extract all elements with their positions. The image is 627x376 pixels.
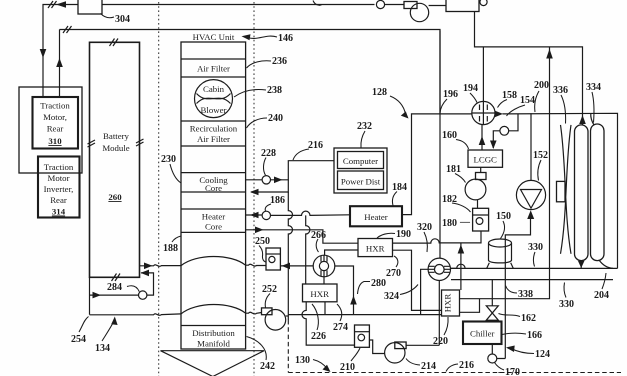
svg-text:Computer: Computer: [343, 156, 378, 166]
wire pump 214 tab to x=439.3 riser: [406, 344, 439, 346]
leader 186: [265, 204, 271, 211]
wire dome1 continuation jog to valve box 250: [246, 264, 266, 266]
leader 210: [351, 348, 360, 361]
svg-text:242: 242: [260, 361, 275, 372]
leader 242: [247, 337, 267, 361]
leader 334: [592, 92, 594, 123]
computer power dist outer box 232: [334, 148, 387, 193]
svg-text:184: 184: [392, 182, 407, 193]
svg-text:304: 304: [115, 14, 130, 25]
leader 266: [316, 239, 318, 252]
leader 240: [247, 118, 268, 128]
traction motor inverter box 314: [38, 157, 80, 218]
svg-text:240: 240: [268, 113, 283, 124]
svg-text:Blower: Blower: [201, 105, 227, 115]
wire top box down to condenser top wire: [475, 12, 583, 125]
small circle tab right of top box: [480, 0, 487, 6]
svg-text:170: 170: [505, 367, 520, 376]
svg-text:180: 180: [442, 218, 457, 229]
leader 190: [377, 233, 395, 238]
wire capsule B bottom curve to header: [599, 260, 613, 268]
air dome duct 1 inside HVAC: [181, 256, 246, 265]
leader 188: [172, 236, 181, 242]
svg-text:310: 310: [48, 136, 62, 146]
up arrow on x=582.5 at capsule top: [579, 115, 586, 124]
leader 130 with arrow: [313, 360, 327, 369]
leader 216 bottom: [446, 364, 458, 372]
condenser capsule B: [591, 124, 605, 261]
vertical wire x=305.7 above HXR: [306, 215, 310, 284]
arrow on top wire pointing left: [56, 1, 66, 7]
leader 230: [170, 164, 181, 183]
cabin blower circle 238: [195, 80, 233, 118]
wire circle154 left down into LCGC with arrow: [493, 131, 500, 148]
four-way valve 194: [472, 101, 495, 124]
wire valve top riser: [482, 47, 484, 102]
leader 232: [361, 131, 365, 148]
svg-text:214: 214: [421, 361, 436, 372]
traction outer enclosure box: [19, 87, 82, 173]
wire box 250 to pump 266 with left arrow: [280, 265, 313, 267]
pump 214 blower: [385, 343, 405, 363]
svg-text:Inverter,: Inverter,: [44, 184, 74, 194]
svg-text:160: 160: [442, 130, 457, 141]
svg-text:280: 280: [371, 278, 386, 289]
svg-text:Traction: Traction: [44, 162, 74, 172]
small circle port 154: [500, 126, 509, 135]
break slash battery right edge: [136, 139, 144, 146]
dotted boundary line right: [253, 2, 255, 376]
wire valve bottom to LCGC with up arrow: [481, 125, 483, 150]
svg-text:230: 230: [161, 154, 176, 165]
leader 128 with arrow: [390, 96, 406, 114]
svg-text:Cabin: Cabin: [203, 84, 225, 94]
wire bottom duct y=314.8 to HVAC with jog: [90, 314, 182, 316]
svg-text:260: 260: [108, 192, 122, 202]
expansion valve 162: [491, 280, 493, 307]
svg-text:146: 146: [278, 33, 293, 44]
wire box 210 right to pump 214: [369, 340, 384, 354]
svg-text:336: 336: [553, 85, 568, 96]
break slash on second wire: [63, 26, 72, 33]
svg-text:128: 128: [372, 87, 387, 98]
leader 214: [406, 359, 420, 366]
wire from box 304 right to top-right pump: [102, 4, 375, 6]
svg-text:154: 154: [520, 95, 535, 106]
svg-text:Chiller: Chiller: [470, 329, 495, 339]
svg-text:—: —: [459, 217, 471, 228]
leader 336: [561, 95, 566, 124]
HXR box 190 (heater loop hx): [358, 239, 393, 257]
svg-text:HVAC Unit: HVAC Unit: [193, 32, 235, 42]
svg-text:274: 274: [333, 322, 348, 333]
dashed refrigerant system boundary 130: [288, 372, 621, 374]
leader 158: [498, 100, 508, 108]
leader 154: [507, 105, 526, 116]
svg-text:LCGC: LCGC: [473, 155, 497, 165]
svg-text:266: 266: [311, 230, 326, 241]
arrow out right of valve: [495, 111, 503, 118]
svg-text:190: 190: [396, 229, 411, 240]
svg-text:Battery: Battery: [103, 131, 129, 141]
wire heater right riser to top loop: [402, 114, 472, 215]
dashed boundary segment x=287.5 lower: [287, 320, 289, 373]
svg-text:220: 220: [433, 336, 448, 347]
svg-text:188: 188: [163, 243, 178, 254]
wire top coolant line y=4.5: [43, 5, 78, 53]
up arrow on riser x=353.5: [350, 296, 357, 305]
svg-text:158: 158: [502, 90, 517, 101]
svg-text:250: 250: [255, 236, 270, 247]
leader 254: [79, 317, 89, 333]
big distribution arrow 242: [161, 351, 265, 376]
svg-text:200: 200: [534, 80, 549, 91]
svg-text:130: 130: [295, 355, 310, 366]
top right box: [446, 0, 479, 12]
wire vertical with up arrow to 310: [59, 30, 61, 98]
wire HXR220 right ports to 338 box: [460, 268, 550, 312]
leader 134 with up arrow: [102, 321, 114, 341]
wire 228 to computer loop: [271, 161, 335, 180]
air dome duct 2 inside HVAC: [181, 305, 246, 314]
main riser x=439.3 from top corner through pump 320: [438, 31, 441, 346]
pump 266: [313, 255, 335, 277]
wire heater feed y=215 from HVAC with circle 186: [246, 214, 262, 216]
svg-text:Rear: Rear: [47, 124, 64, 134]
svg-text:Distribution: Distribution: [192, 328, 235, 338]
svg-text:284: 284: [107, 282, 122, 293]
svg-text:Traction: Traction: [40, 101, 70, 111]
break slash battery left edge: [88, 140, 96, 147]
port circle on top wire: [376, 0, 384, 8]
leader 181: [455, 174, 466, 183]
svg-text:Heater: Heater: [202, 212, 226, 222]
recirculation filter section lines: [181, 121, 246, 146]
leader 204: [602, 273, 606, 289]
HXR box 220 vertical (chiller hx): [442, 290, 460, 316]
wire pump 266 top to HXR 190 lower port: [325, 250, 358, 255]
HXR box 226 (battery loop hx): [303, 284, 338, 302]
riser x=549.5 condenser return: [549, 47, 551, 269]
dotted boundary line left: [158, 2, 160, 376]
leader 152: [538, 160, 541, 181]
arrow left into battery y=273: [141, 270, 150, 277]
pump box 210: [355, 325, 370, 347]
wire circle 186 to heater with hop at x=305.7: [271, 211, 351, 215]
svg-text:324: 324: [384, 291, 399, 302]
svg-text:Core: Core: [205, 183, 222, 193]
heater core section lines: [181, 209, 246, 232]
fan motor box: [557, 181, 566, 201]
svg-text:334: 334: [586, 82, 601, 93]
svg-text:216: 216: [308, 140, 323, 151]
break slash battery top: [110, 39, 119, 47]
svg-text:Air Filter: Air Filter: [197, 64, 230, 74]
leader 146 with arrow: [248, 36, 277, 38]
condenser capsule A: [575, 125, 589, 261]
svg-text:152: 152: [533, 150, 548, 161]
arrow down into traction motor feed: [40, 49, 47, 58]
pump 320: [428, 258, 450, 280]
wire pump 266 right to riser x=353.5: [335, 266, 354, 315]
valve box 250: [266, 248, 280, 270]
leader 216 top: [293, 149, 309, 160]
long duct wire y=314.6 to HXR 220: [288, 314, 441, 316]
blower 181: [480, 167, 482, 172]
leader 284: [127, 286, 139, 292]
leader 196: [440, 99, 447, 113]
wire second top line y=29.5: [60, 30, 441, 114]
svg-text:232: 232: [357, 121, 372, 132]
svg-text:238: 238: [267, 85, 282, 96]
leader 330 upper: [533, 252, 535, 267]
svg-text:254: 254: [71, 334, 86, 345]
svg-text:HXR: HXR: [310, 289, 329, 299]
leader 166: [502, 333, 526, 334]
wire pump 152 top riser to main line: [530, 113, 532, 180]
arrow right on y=229.8: [255, 227, 264, 234]
svg-text:Recirculation: Recirculation: [190, 124, 238, 134]
sensor box 180: [473, 208, 489, 231]
wire return into cooling core y=192 with left arrow: [251, 180, 288, 192]
svg-text:204: 204: [594, 290, 609, 301]
pump circle 284: [139, 291, 147, 299]
svg-text:270: 270: [386, 268, 401, 279]
svg-text:124: 124: [535, 349, 550, 360]
wire HXR190 right lower to riser x=411.5: [393, 250, 442, 310]
heater box 184: [350, 206, 402, 226]
wire circle154 right up to main line: [509, 114, 518, 131]
LCGC box 160: [468, 150, 503, 167]
distribution manifold section lines: [181, 325, 246, 327]
svg-text:Core: Core: [205, 222, 222, 232]
svg-text:134: 134: [95, 343, 110, 354]
wire pump 320 left loop 324: [421, 269, 428, 314]
leader 236: [247, 61, 272, 68]
svg-text:166: 166: [527, 330, 542, 341]
leader 252: [265, 294, 270, 308]
svg-text:Air Filter: Air Filter: [197, 134, 230, 144]
arrow right after circle 228: [274, 177, 283, 184]
top right pump blower: [410, 3, 428, 21]
up arrow into pump 152: [527, 210, 534, 219]
receiver cylinder 150: [487, 263, 514, 269]
leader 226: [312, 304, 318, 330]
svg-text:320: 320: [417, 222, 432, 233]
arrow right on battery outlet: [144, 263, 153, 270]
leader 228: [263, 158, 266, 176]
port circle 186: [262, 211, 270, 219]
leader 270: [394, 256, 398, 267]
power dist inner box: [338, 171, 384, 190]
leader 162: [499, 314, 521, 317]
svg-text:236: 236: [272, 56, 287, 67]
wire battery outlet y=266 with jog over dotted line: [140, 265, 182, 267]
svg-text:330: 330: [559, 299, 574, 310]
svg-text:194: 194: [463, 83, 478, 94]
leader 170: [495, 363, 505, 371]
svg-text:216: 216: [459, 360, 474, 371]
pump 252 blower: [262, 308, 273, 315]
leader 200: [535, 91, 539, 112]
leader 182: [452, 203, 471, 212]
HVAC port circle 228 on cooling core: [246, 179, 262, 181]
svg-text:210: 210: [340, 362, 355, 373]
svg-text:Module: Module: [102, 143, 129, 153]
box 304: [78, 0, 102, 14]
leader 280: [358, 282, 371, 295]
wire HXR bottom-right to duct line: [324, 302, 326, 315]
svg-text:330: 330: [528, 242, 543, 253]
svg-text:228: 228: [261, 148, 276, 159]
wire valve right to condenser line: [503, 113, 618, 268]
wire blower bottom to box 180: [477, 200, 479, 209]
leader 220: [444, 317, 448, 335]
vertical wire x=288.3 down with hops: [288, 192, 292, 320]
up arrow on riser x=549.5: [546, 49, 553, 59]
wire pump 152 bottom loop to chiller line: [505, 217, 530, 359]
chiller box 166: [463, 322, 502, 345]
svg-text:Motor: Motor: [48, 173, 70, 183]
wire pump 252 right to x=288.3: [286, 315, 289, 317]
svg-text:186: 186: [270, 195, 285, 206]
wire HXR190 right upper to box 180 loop with hop: [393, 231, 482, 243]
condenser fan 336: [561, 125, 572, 254]
air filter section lines: [181, 59, 246, 77]
svg-text:226: 226: [311, 331, 326, 342]
battery module box 260: [90, 42, 140, 277]
leader 324: [400, 285, 418, 295]
bottom header wires 330: [451, 268, 618, 279]
leader 320: [424, 232, 427, 252]
break slash battery bottom: [112, 274, 121, 282]
wire pump 266 bottom to HXR 226: [323, 277, 325, 284]
cooling core section lines: [181, 173, 246, 192]
leader 274: [337, 304, 342, 321]
leader 250: [259, 246, 266, 263]
svg-text:181: 181: [446, 164, 461, 175]
leader 238: [234, 89, 266, 97]
leader 330 lower: [564, 283, 566, 298]
wire capsule B top curve to main line: [591, 113, 594, 125]
wire capsule A bottom with down arrow: [580, 261, 582, 269]
up arrow on x=59.5: [56, 58, 63, 67]
leader 338: [506, 286, 518, 294]
HVAC unit outer box 146: [181, 42, 246, 349]
wire battery return loop via pump 284: [90, 273, 154, 315]
svg-text:338: 338: [518, 289, 533, 300]
svg-text:196: 196: [443, 89, 458, 100]
svg-text:Heater: Heater: [364, 212, 388, 222]
leader 304: [101, 14, 115, 18]
svg-text:Rear: Rear: [50, 195, 67, 205]
jog squiggle on top wire near x=318: [313, 1, 322, 6]
break slash on top wire: [48, 1, 57, 8]
wire segments through port circle to blower tab: [385, 5, 446, 6]
wire HXR220 top port riser with up arrow: [460, 243, 462, 290]
computer inner box: [338, 152, 384, 169]
svg-text:Power Dist: Power Dist: [341, 177, 381, 187]
leader 150: [501, 221, 505, 239]
svg-text:HXR: HXR: [443, 294, 453, 313]
fan bowtie inside blower: [197, 94, 231, 104]
port circle 170: [488, 354, 497, 363]
wire HVAC dome2 to pump 252 tab: [246, 312, 262, 314]
leader 184: [392, 192, 397, 206]
traction motor rear box 310: [33, 97, 79, 149]
leader 160: [456, 140, 469, 150]
wire chiller bottom to circle 170 to riser: [492, 344, 505, 359]
svg-text:Manifold: Manifold: [197, 339, 230, 349]
hop of pump-right wire over x=460.9: [451, 264, 466, 268]
svg-text:HXR: HXR: [366, 244, 385, 254]
svg-text:150: 150: [496, 211, 511, 222]
wire vertical into traction motor 310: [42, 56, 44, 97]
pump 152 with triangle: [516, 180, 545, 209]
wire heater-core outlet y=229.8 to HXR 190: [246, 230, 358, 243]
svg-text:162: 162: [521, 313, 536, 324]
arrow right on return y=295: [93, 292, 102, 299]
wire HXR bottom-left down to pump box 210 with hop: [302, 302, 354, 345]
leader 194: [470, 93, 477, 103]
svg-text:314: 314: [52, 207, 66, 217]
svg-text:Motor,: Motor,: [43, 112, 67, 122]
